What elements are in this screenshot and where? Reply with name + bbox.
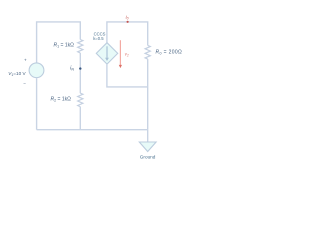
CCCS diamond U1 <box>96 43 117 64</box>
wire R1 bottom to R2 top <box>79 53 81 93</box>
svg-text:−: − <box>23 81 26 86</box>
red arrow vx <box>119 40 121 65</box>
red current dot i0 <box>127 21 129 23</box>
svg-text:+: + <box>24 58 27 63</box>
svg-text:Ground: Ground <box>140 154 156 159</box>
CCCS internal arrow <box>106 46 108 58</box>
voltage source V1 <box>29 63 44 78</box>
svg-text:R2 = 1kΩ: R2 = 1kΩ <box>51 96 72 102</box>
svg-text:k=0.5: k=0.5 <box>93 36 104 41</box>
wire top-left segment V1 to R1 top <box>37 22 81 63</box>
resistor R1 <box>78 40 83 54</box>
wire R0 bottom to bottom wire <box>147 59 149 130</box>
node iN dot <box>79 67 81 69</box>
wire top-right segment (CCCS top to R0 top) <box>107 22 148 46</box>
bottom wire <box>37 129 148 131</box>
svg-text:iN: iN <box>70 66 74 72</box>
svg-text:R1 = 1kΩ: R1 = 1kΩ <box>54 43 75 49</box>
wire left branch bottom <box>36 78 38 130</box>
resistor R0 <box>145 45 150 59</box>
ground stem wire <box>147 130 149 142</box>
wire R2 bottom lead <box>79 107 81 130</box>
wire CCCS bottom to inner bottom <box>107 64 148 87</box>
resistor R2 <box>78 93 83 107</box>
ground symbol <box>139 142 156 152</box>
